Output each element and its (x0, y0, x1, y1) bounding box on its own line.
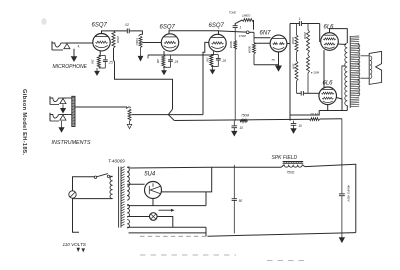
OT1 center tap (342, 65, 346, 67)
OT1 secondary (358, 44, 360, 96)
coupling cap C7 .1 lower (300, 91, 302, 95)
wire junction to grid column (249, 31, 254, 33)
resistor R10 lower (307, 55, 310, 73)
wire 5V line (127, 205, 206, 207)
ground V3 cathode (212, 67, 214, 70)
svg-text:10 M: 10 M (310, 113, 318, 117)
svg-text:.1: .1 (298, 17, 301, 21)
plate resistor R1 100M (112, 31, 115, 48)
cathode resistor R2 2M V1 (99, 54, 106, 56)
filter cap C10 50 (233, 165, 235, 199)
wire V3 grid to mixer bus (203, 42, 209, 114)
svg-text:.1: .1 (239, 26, 242, 30)
svg-text:TONE: TONE (229, 11, 236, 15)
svg-text:50: 50 (239, 199, 243, 203)
ground rail (208, 233, 356, 237)
heater line 1 (127, 226, 206, 228)
svg-text:10: 10 (298, 124, 302, 128)
svg-text:470M: 470M (239, 34, 247, 38)
V3 cathode resistor R4 (211, 54, 218, 56)
svg-text:MICROPHONE: MICROPHONE (53, 64, 88, 70)
svg-text:.25: .25 (174, 60, 179, 64)
svg-text:.25: .25 (221, 59, 226, 63)
switch S1 (94, 176, 96, 178)
rectifier loop (161, 167, 211, 192)
cathode tie V5 V6 (323, 50, 325, 87)
wire 6N7 grid 1 (254, 37, 270, 39)
svg-text:.02: .02 (125, 23, 130, 27)
wire mic jack to V1 grid (70, 42, 93, 44)
wire cap row upper (290, 23, 299, 25)
V3 cathode lead (213, 51, 215, 55)
resistor R9 250M (307, 24, 309, 31)
beam tetrode V6 6L6 lower (319, 87, 337, 105)
svg-text:2M: 2M (205, 57, 209, 63)
wire V1 plate to coupling cap (102, 31, 127, 34)
decoupling resistor R12 750M (240, 119, 248, 122)
wire lamp left (127, 216, 149, 218)
svg-text:750M: 750M (241, 114, 249, 118)
wire V3 plate to junction (219, 31, 247, 32)
svg-text:6SQ7: 6SQ7 (209, 23, 225, 29)
speaker SP1 (369, 51, 381, 84)
svg-text:SPK FIELD: SPK FIELD (272, 155, 298, 161)
ground V1 cathode (96, 68, 98, 71)
svg-text:2M: 2M (91, 59, 95, 65)
microphone jack J1 (51, 41, 53, 50)
wire grid row lower (297, 92, 301, 94)
speaker field choke L1 (281, 165, 284, 168)
twin triode V4 6N7 (270, 35, 287, 52)
ground V2 cathode (163, 67, 165, 70)
V4 cathode lead (278, 52, 280, 66)
node B plus junction (319, 110, 347, 112)
wire node to rail corner (290, 111, 320, 116)
OT1 bottom lead (346, 106, 348, 111)
V1 cathode lead (99, 51, 101, 56)
rectifier V7 5U4 (145, 182, 162, 199)
grid resistor R7 100M (296, 24, 298, 36)
wire plate column to rail (289, 24, 291, 121)
V4 plate stub (287, 43, 290, 45)
tone switch arm (235, 20, 242, 26)
output transformer OT1 primary (345, 43, 348, 106)
svg-text:750Ω: 750Ω (287, 170, 295, 174)
wire HV top to rail (127, 166, 130, 168)
wire V5 plate to OT top (330, 29, 348, 43)
mains cord (73, 198, 80, 232)
ground J3 (61, 121, 63, 128)
svg-text:5U4: 5U4 (144, 171, 156, 177)
svg-text:Gibson Model EH-185.: Gibson Model EH-185. (21, 89, 27, 155)
cathode bypass cap C2 .25 V1 (104, 55, 106, 59)
tone return resistor R5 500M (234, 28, 236, 41)
T1 6.3V winding (127, 220, 129, 228)
svg-text:110 VOLTS: 110 VOLTS (63, 242, 87, 247)
wire C1 to volume pot (130, 31, 143, 35)
wire heater to ground rail (205, 227, 207, 236)
wire V5 plate right link (338, 43, 346, 46)
svg-text:250M: 250M (303, 31, 307, 40)
svg-text:6SQ7: 6SQ7 (92, 23, 108, 29)
wire VR1 wiper to V2 grid (142, 42, 161, 44)
ground rail dashed extension (140, 235, 208, 237)
ground V4 cathode (274, 60, 279, 62)
coupling cap C6 .1 upper (298, 21, 300, 26)
svg-text:T-40069: T-40069 (108, 159, 125, 164)
triode V1 6SQ7 (93, 34, 110, 51)
T1 core (118, 167, 120, 228)
plug prongs mark (77, 248, 81, 252)
screen resistor R11 10M (309, 118, 319, 121)
mains plug (69, 191, 76, 198)
svg-text:500M: 500M (229, 41, 233, 49)
chassis dashed line right (267, 260, 306, 262)
scan smudge (41, 18, 46, 25)
wire V6 plate side (337, 98, 343, 111)
rail right corner (355, 164, 357, 233)
jog wire to B+ rail (168, 109, 174, 120)
svg-text:40MFD 450V: 40MFD 450V (347, 185, 351, 203)
triode V2 6SQ7 (161, 34, 178, 51)
junction node A (246, 31, 249, 34)
beam tetrode V5 6L6 upper (321, 33, 339, 51)
cathode tie wire V2 V3 (148, 54, 214, 56)
volume pot VR2 (126, 107, 131, 109)
ground J2 (62, 104, 64, 108)
wire V2 plate bridge to V3 (169, 31, 219, 34)
V2 cathode lead (163, 51, 165, 55)
V3 cathode cap C4 (217, 55, 219, 59)
filter cap C9 10 (293, 121, 295, 124)
svg-text:6SQ7: 6SQ7 (160, 24, 176, 30)
svg-text:75: 75 (271, 58, 275, 62)
resistor R8 50M lower (295, 61, 298, 81)
filter cap C11 40MFD (341, 119, 343, 194)
svg-text:6N7: 6N7 (260, 31, 272, 37)
V7 cathode bottom (152, 199, 154, 206)
svg-text:4.: 4. (78, 45, 81, 49)
coupling capacitor C1 .02 (126, 29, 128, 34)
wire plug to switch (73, 177, 95, 191)
svg-text:100M: 100M (116, 36, 120, 44)
instrument jack J2 (49, 96, 51, 104)
svg-text:INSTRUMENTS: INSTRUMENTS (52, 140, 91, 146)
filament output arrow (159, 209, 172, 211)
wire jacks to volume pot 2 (75, 106, 127, 108)
svg-text:.25: .25 (108, 60, 113, 64)
T1 HV secondary (127, 167, 130, 200)
tone capacitor C5 .1 (233, 25, 238, 27)
svg-text:2M: 2M (156, 58, 160, 64)
wire plug lower (73, 198, 113, 200)
T1 primary (110, 176, 113, 198)
wire R1 bottom to B+ branch (114, 48, 173, 109)
wire loop down (205, 192, 207, 206)
svg-text:6L6: 6L6 (324, 25, 335, 31)
svg-text:▸ 20M: ▸ 20M (311, 71, 320, 75)
wire lamp right (157, 217, 173, 228)
svg-text:500M: 500M (248, 46, 252, 54)
instrument jack J3 (49, 113, 51, 121)
filter cap C8 10 (233, 121, 235, 126)
grid resistor R6 500M 6N7 (253, 32, 255, 42)
volume pot VR1 1MEG mic (139, 34, 143, 36)
wire V6 bottom to node (327, 105, 329, 111)
wire mixer bus (132, 114, 204, 116)
pilot lamp P1 (150, 213, 158, 221)
heater line 2 (129, 232, 207, 234)
OT1 core (349, 36, 351, 108)
svg-text:1MEG: 1MEG (242, 13, 251, 17)
svg-text:1MEG: 1MEG (135, 38, 139, 45)
B+ rail (174, 119, 309, 120)
wire to V5 grid (320, 24, 321, 42)
T1 5V winding (127, 204, 129, 217)
svg-text:50M: 50M (292, 64, 296, 70)
ground arrow V4 (276, 66, 282, 71)
HV rail (130, 166, 281, 169)
cathode cap C3 .25 V2 (170, 55, 172, 59)
jack tie bar (72, 96, 75, 126)
ground mic jack (73, 49, 75, 57)
tone pot 1MEG (242, 19, 253, 22)
wire HV tap to 5U4 plate (127, 183, 144, 185)
chassis dashed line left (140, 254, 236, 256)
wire 6N7 grid 2 (254, 42, 270, 44)
svg-text:100M: 100M (291, 37, 295, 45)
cathode resistor R3 2M V2 (162, 55, 165, 67)
svg-text:10: 10 (240, 126, 244, 130)
wire grid return bottom (254, 64, 279, 66)
triode V3 6SQ7 (209, 34, 226, 51)
